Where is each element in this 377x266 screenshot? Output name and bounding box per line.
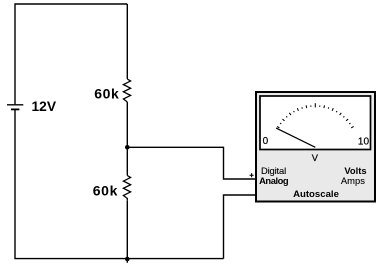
svg-text:10: 10 (358, 136, 370, 147)
svg-text:60k: 60k (94, 85, 119, 101)
svg-text:Autoscale: Autoscale (293, 189, 339, 200)
svg-text:60k: 60k (93, 182, 118, 198)
svg-text:Analog: Analog (259, 175, 289, 186)
svg-text:0: 0 (263, 136, 269, 147)
svg-text:V: V (312, 153, 319, 163)
svg-text:12V: 12V (32, 99, 57, 114)
svg-text:Amps: Amps (341, 175, 365, 186)
